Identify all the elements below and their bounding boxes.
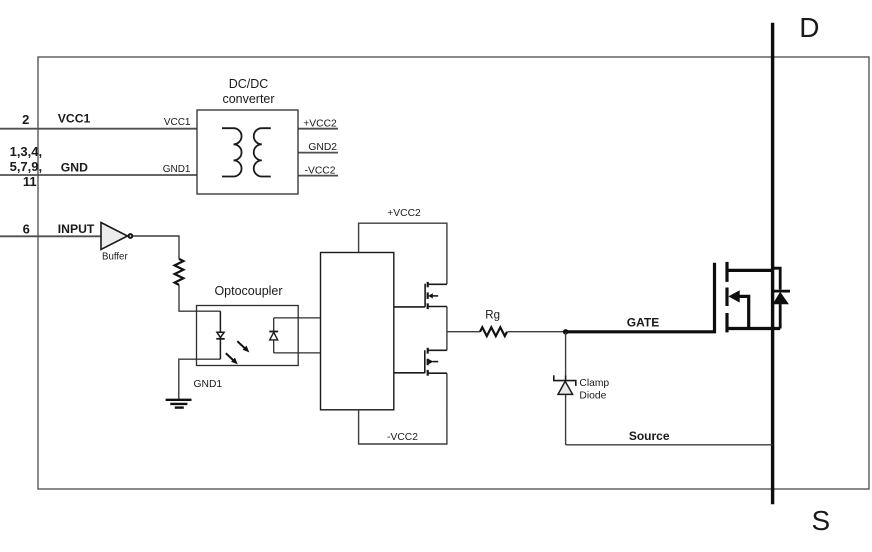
svg-text:+VCC2: +VCC2 — [303, 118, 337, 129]
svg-text:Optocoupler: Optocoupler — [214, 284, 282, 298]
svg-text:Source: Source — [629, 429, 670, 443]
svg-text:5,7,9,: 5,7,9, — [10, 159, 43, 174]
svg-text:VCC1: VCC1 — [58, 112, 91, 126]
svg-text:11: 11 — [23, 174, 37, 189]
svg-text:converter: converter — [222, 92, 274, 106]
svg-text:VCC1: VCC1 — [164, 117, 191, 128]
svg-text:Buffer: Buffer — [102, 252, 128, 263]
svg-text:-VCC2: -VCC2 — [305, 165, 336, 176]
svg-text:DC/DC: DC/DC — [229, 77, 269, 91]
svg-text:Clamp: Clamp — [579, 378, 609, 389]
svg-text:GATE: GATE — [627, 316, 659, 330]
svg-text:2: 2 — [22, 112, 29, 127]
svg-text:GND: GND — [61, 160, 88, 174]
svg-text:6: 6 — [23, 222, 30, 237]
svg-text:+VCC2: +VCC2 — [387, 208, 421, 219]
svg-text:GND2: GND2 — [308, 142, 337, 153]
svg-text:Diode: Diode — [579, 391, 606, 402]
svg-text:Rg: Rg — [485, 310, 500, 322]
svg-text:1,3,4,: 1,3,4, — [10, 144, 43, 159]
svg-text:S: S — [812, 505, 831, 536]
svg-text:-VCC2: -VCC2 — [387, 432, 418, 443]
svg-text:GND1: GND1 — [163, 164, 191, 175]
svg-text:INPUT: INPUT — [58, 222, 95, 236]
svg-text:GND1: GND1 — [194, 379, 223, 390]
svg-text:D: D — [799, 12, 819, 43]
